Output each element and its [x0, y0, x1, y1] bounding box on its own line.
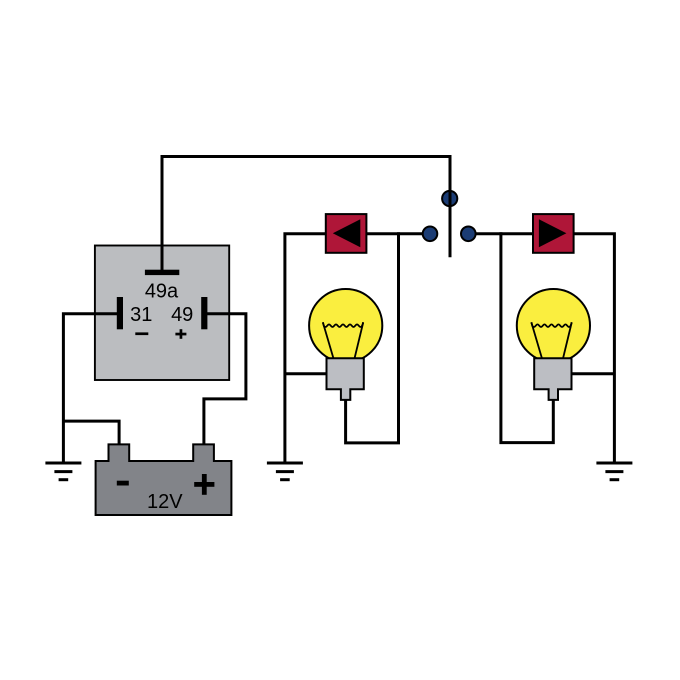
wire right indicator to right ground line [573, 234, 614, 463]
right turn indicator box [533, 214, 574, 253]
relay terminal 49 bar [201, 297, 207, 329]
wire right bulb contact to switch wire junction [501, 232, 553, 442]
left bulb base [327, 358, 364, 400]
wire branch to battery minus terminal [63, 421, 119, 446]
svg-text:49: 49 [171, 304, 193, 326]
switch common contact top [442, 191, 457, 206]
right bulb filament [531, 322, 571, 358]
wire left bulb contact to switch wire junction [346, 232, 399, 443]
svg-text:31: 31 [130, 304, 152, 326]
left turn indicator box [326, 214, 367, 253]
right indicator arrow [539, 219, 567, 247]
wire relay 31 to left junction and ground [63, 314, 120, 463]
ground left lamp [267, 463, 303, 480]
label plus under 49 [175, 329, 186, 339]
battery 12V body with terminals [96, 444, 232, 515]
svg-text:12V: 12V [147, 491, 183, 513]
relay terminal 49a bar [145, 270, 179, 275]
label minus under 31 [135, 332, 148, 335]
relay terminal 31 bar [117, 297, 123, 329]
flasher relay U1 body [95, 246, 229, 381]
battery minus symbol [117, 481, 129, 486]
switch left contact [423, 227, 438, 242]
wire switch right contact to right indicator [475, 232, 534, 235]
wire branch right ground line to right bulb base [571, 372, 615, 375]
wire top: relay 49a to switch lever [162, 157, 450, 271]
ground left battery [45, 463, 81, 480]
left bulb filament [323, 322, 363, 358]
wire branch left ground line to left bulb base [285, 372, 328, 375]
wire left indicator to left ground line [285, 234, 326, 463]
left bulb glass [309, 289, 382, 362]
right bulb base [534, 358, 571, 400]
wire left indicator to switch left contact [367, 232, 424, 235]
battery plus symbol [194, 474, 214, 495]
left indicator arrow [333, 219, 361, 247]
switch right contact [461, 227, 476, 242]
right bulb glass [517, 289, 590, 362]
ground right lamp [596, 463, 632, 480]
svg-text:49a: 49a [145, 280, 179, 302]
wire relay 49 to battery plus terminal [204, 314, 246, 446]
